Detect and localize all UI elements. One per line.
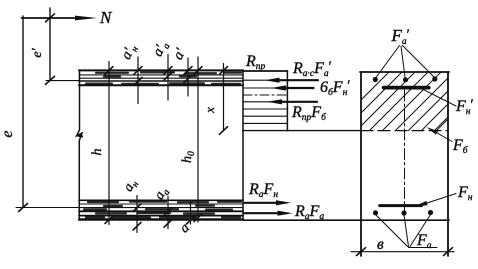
label a <box>177 221 193 237</box>
label a'a <box>150 38 173 60</box>
dimension line a' vertical <box>187 58 189 96</box>
arrow Rac Fa' line <box>277 79 318 81</box>
tick a' bottom <box>184 75 192 83</box>
leader Fa from right dot <box>410 215 431 247</box>
svg-text:6бFн′: 6бFн′ <box>320 78 350 98</box>
tick a'a bottom <box>164 72 172 80</box>
dimension line e' vertical <box>49 8 51 81</box>
stress block line 5 <box>243 115 287 117</box>
leader Fn' from bar <box>422 89 456 106</box>
leader Fn arrow <box>421 194 456 206</box>
bottom band top line <box>79 199 243 201</box>
bottom reinforcement line 2 (Fn axis) <box>79 207 243 209</box>
dimension line a vertical <box>190 201 192 224</box>
arrow Rac Fa' head <box>265 78 280 83</box>
tick at e' top <box>46 14 55 22</box>
leader Fa' to centre dot <box>401 46 405 77</box>
section centre dash-dot line <box>404 90 406 213</box>
force arrow N line <box>22 17 79 19</box>
neutral axis line solid to section <box>243 130 361 132</box>
dimension line a'n vertical <box>137 57 139 104</box>
arrow Ra Fn line <box>245 202 279 204</box>
svg-text:x: x <box>202 107 217 114</box>
bottom reinforcement line 4 <box>79 215 243 217</box>
label Fa shelf <box>409 247 438 249</box>
force arrow N head <box>75 16 97 21</box>
tick h top <box>105 67 113 75</box>
stress block line 2 <box>243 87 287 89</box>
tick a <box>187 216 195 224</box>
top reinforcement line 3 (F'n axis) <box>79 80 243 82</box>
arrow Ra Fa head <box>278 211 293 216</box>
tick a'n bottom <box>134 77 142 85</box>
svg-text:e: e <box>0 130 16 137</box>
dimension line h0 vertical <box>197 57 199 222</box>
arrow Ra Fn head <box>276 200 291 205</box>
arrow Ra Fa line <box>245 212 280 214</box>
top rebar dot left <box>373 77 378 82</box>
tick width right <box>444 248 453 256</box>
stress block line 3 <box>243 101 287 103</box>
bottom edge line from beam to section <box>243 219 449 221</box>
stress block line 6 <box>243 122 287 124</box>
bottom reinforcement line 3 <box>79 210 243 212</box>
stress block line 1 <box>243 79 287 81</box>
leader Fa from centre dot <box>404 215 409 247</box>
top reinforcement line 2 <box>79 77 243 79</box>
hatching of compression zone <box>330 71 478 131</box>
dimension line an vertical <box>136 196 138 233</box>
break symbol bold stroke <box>77 135 81 136</box>
tick width left <box>357 248 366 256</box>
arrow sigma_b Fn' line <box>284 87 314 89</box>
leader Fb arrowhead <box>427 127 439 135</box>
top band bottom line <box>79 84 243 86</box>
svg-text:h: h <box>90 149 105 156</box>
tick an top <box>133 204 141 212</box>
top rebar dot centre <box>403 77 408 82</box>
label h0 <box>180 151 197 163</box>
bottom rebar dot right <box>428 210 433 215</box>
label aa <box>152 185 173 204</box>
extension line at e' bottom to beam <box>46 80 79 82</box>
tick at e' bottom <box>46 76 55 84</box>
neutral axis dashed inside section <box>361 130 448 132</box>
beam top edge <box>79 69 243 71</box>
dimension line x vertical <box>223 64 225 131</box>
section right edge <box>447 72 449 256</box>
bottom band smudges <box>84 202 241 218</box>
bottom rebar dot left <box>373 210 378 215</box>
bottom rebar dot centre <box>401 210 406 215</box>
top reinforcement line 1 <box>79 74 243 76</box>
stress block right edge <box>286 71 288 131</box>
tick a'n top <box>134 67 142 75</box>
dimension line aa vertical <box>167 197 169 229</box>
tick aa bottom <box>164 220 172 228</box>
bottom reinforcement line 1 <box>79 203 243 205</box>
tick h0 bottom <box>194 214 202 222</box>
tick aa top <box>164 208 172 216</box>
tick a'a top <box>164 67 172 75</box>
tick at e bottom <box>19 204 28 212</box>
dimension line h vertical <box>108 62 110 225</box>
stress block centroid dash-dot line <box>243 94 287 96</box>
label a'n <box>118 41 141 63</box>
leader Fa' to right dot <box>403 46 435 78</box>
arrow Rpr Fb head <box>267 99 282 104</box>
beam left edge with break symbol <box>77 70 82 220</box>
label an <box>121 177 142 196</box>
tick x bottom <box>220 127 228 135</box>
tick h0 top <box>194 67 202 75</box>
leader Fn arrowhead <box>414 201 428 207</box>
beam bottom edge <box>79 218 243 220</box>
beam right edge <box>242 70 244 220</box>
dimension line a'a vertical <box>167 55 169 101</box>
width dimension line <box>351 251 454 253</box>
extension line at e bottom to beam <box>16 207 79 209</box>
section top edge <box>360 71 449 73</box>
leader Fb arrow <box>430 129 452 142</box>
tick a' top <box>184 67 192 75</box>
leader Fa' to left dot <box>376 46 400 78</box>
top prestress bar Fn' <box>384 86 429 90</box>
bottom prestress bar Fn <box>380 204 422 207</box>
arrow sigma_b Fn' head <box>271 85 286 90</box>
svg-text:e′: e′ <box>30 47 45 57</box>
svg-text:N: N <box>99 8 113 27</box>
label a' <box>170 45 189 62</box>
top band smudges <box>86 72 241 84</box>
dimension line e vertical <box>22 16 24 208</box>
tick h bottom <box>105 216 113 224</box>
section left edge <box>360 72 362 256</box>
tick x top <box>220 67 228 75</box>
svg-text:в: в <box>377 236 384 253</box>
arrow Rpr Fb line <box>280 101 317 103</box>
stress block top edge <box>243 70 288 72</box>
tick an bottom <box>133 222 141 230</box>
top rebar dot right <box>432 76 437 81</box>
stress block line 4 <box>243 108 287 110</box>
leader Fa from left dot <box>376 215 408 247</box>
